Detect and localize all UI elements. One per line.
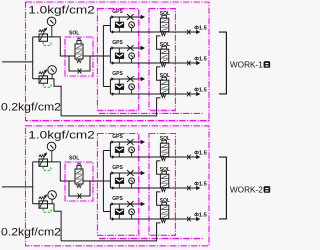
orifice X on output of SV2.3 [187,217,191,222]
shut-off valve X on U1.2 top line [127,45,134,51]
outer dash-dot enclosure box (circuit 1) [26,2,210,121]
wire 0.2kgf bottom bus (circuit 2) [61,240,157,242]
shut-off valve X on U1.1 top line [127,14,134,20]
flow arrow on U1.1 bottom line [112,30,115,33]
label SOL SV2.1 [160,136,170,142]
orifice X on output of SV1.1 [187,30,191,35]
wire GPS U1.1 top line [110,16,141,18]
orifice X on bypass of SV1.0 [78,68,82,73]
wire pressure-switch drop of U1.3 [118,79,120,94]
wire GPS U2.1 top line [110,141,141,143]
label GPS U1.2 [112,40,123,46]
GPS column dash-dot box (circuit 1) [97,9,138,111]
orifice X on output of SV2.2 [187,186,191,191]
svg-text:Φ1.5: Φ1.5 [194,213,207,219]
flow arrow on U1.2 bottom line [112,61,115,64]
pressure gauge G1.3 [129,84,135,90]
wire pilot link from SV1.2 [157,67,162,80]
svg-text:0.2kgf/cm2: 0.2kgf/cm2 [1,227,61,239]
label SOL SV2.3 [160,198,170,204]
wire inlet riser (circuit 1) [32,37,34,79]
svg-text:Φ1.5: Φ1.5 [194,88,207,94]
wire GPS U1.3 top line [110,78,141,80]
pressure switch PS2.1 [115,147,123,152]
pressure gauge PG1.2 [48,66,57,75]
vent arrow of U2.1 [141,140,145,144]
wire bus stub row1 (circuit 2) [103,150,110,152]
WORK-2 group bracket [219,157,227,219]
wire pilot link from SV2.1 [157,161,162,174]
wire GPS supply bus (circuit 2) [102,151,104,212]
output arrow of SV1.1 [197,30,201,34]
WORK-1 group bracket [219,32,227,94]
pressure gauge G1.1 [129,22,135,28]
vent arrow of U1.1 [141,15,145,19]
solenoid valve SV1.3 body [160,80,168,93]
svg-text:GPS: GPS [112,40,123,46]
outer dash-dot enclosure box (circuit 2) [26,126,210,246]
label SOL SV1.3 [160,73,170,79]
main solenoid valve SV1.0 dash-dot box [65,37,93,76]
pressure gauge PG2.1 [47,142,56,151]
pressure gauge G1.2 [129,53,135,59]
wire output line row3 (circuit 1) [110,93,196,95]
pressure regulator REG1.2 [39,69,48,83]
return spring of SV2.2 [161,188,165,191]
shut-off valve X on U2.3 top line [127,201,134,207]
return spring of SV2.0 [77,185,82,188]
wire 1.0kgf branch to SOL valve and GPS bus (circuit 2) [33,162,111,181]
wire GPS U2.1 loop left vertical [109,142,111,157]
array bottom dash-dot line (circuit 1) [99,112,204,114]
wire GPS U2.3 loop left vertical [109,204,111,219]
return spring of SV1.0 [77,60,82,63]
label WORK-2 side glyph [264,186,271,193]
pilot line (green dashed) of REG2.2 [43,209,51,213]
wire GPS U2.2 loop left vertical [109,173,111,188]
output arrow of SV2.2 [197,186,201,190]
pressure switch PS2.3 [115,209,123,214]
label 0.2kgf/cm2 (circuit 1) [1,102,61,114]
SOL valve column dash-dot box (circuit 1) [149,9,175,111]
pilot stub of SV1.0 [78,39,80,41]
wire inlet riser (circuit 2) [32,162,34,204]
wire 0.2kgf branch (circuit 1) [33,79,61,116]
wire pilot link from SV1.1 [157,36,162,49]
solenoid coil of SV1.0 [77,41,81,44]
shut-off valve X on U2.1 top line [127,139,134,145]
wire bus stub row1 (circuit 1) [103,25,110,27]
wire pressure-switch drop of U2.1 [118,142,120,157]
solenoid valve SV1.1 body [160,18,168,31]
vent arrow of U1.2 [141,46,145,50]
pressure switch PS2.2 [115,178,123,183]
shut-off valve X on U2.2 top line [127,170,134,176]
orifice X on output of SV1.3 [187,92,191,97]
pressure regulator REG2.2 [39,194,48,208]
gauge stem of G1.2 [131,58,133,63]
svg-text:GPS: GPS [112,134,123,140]
label SOL SV1.2 [160,42,170,48]
wire bus stub row3 (circuit 2) [103,211,110,213]
label 0.2kgf/cm2 (circuit 2) [1,227,61,239]
flow arrow on U2.2 bottom line [112,186,115,189]
pressure regulator REG2.1 [39,152,48,166]
label GPS U1.3 [112,71,123,77]
label 1.0kgf/cm2 (circuit 1) [28,4,95,16]
flow arrow on U1.2 top line [111,46,114,49]
pilot line (green dashed) of REG1.1 [43,42,51,46]
solenoid valve SV2.2 body [160,174,168,187]
pilot stub of SV2.0 [78,164,80,166]
svg-text:1.0kgf/cm2: 1.0kgf/cm2 [28,4,95,16]
SOL valve column dash-dot box (circuit 2) [149,134,175,236]
flow arrow on U2.3 top line [111,202,114,205]
gauge stem of PG2.1 [51,151,53,162]
pressure switch PS1.2 [115,53,123,58]
return spring of SV2.3 [161,219,165,222]
label WORK-2 [230,185,263,195]
return spring of SV1.2 [161,63,165,66]
pilot line (green dashed) of REG1.2 [43,84,51,88]
pressure gauge PG2.2 [48,191,57,200]
pressure gauge G2.2 [129,178,135,184]
wire output line row3 (circuit 2) [110,218,196,220]
svg-text:Φ1.5: Φ1.5 [194,182,207,188]
solenoid coil of SV1.2 [162,46,167,49]
svg-text:1.0kgf/cm2: 1.0kgf/cm2 [28,129,95,141]
label WORK-1 side glyph [264,61,271,68]
pilot line (green dashed) of REG2.1 [43,167,51,171]
solenoid valve SV2.1 body [160,143,168,156]
solenoid valve SV2.3 body [160,205,168,218]
solenoid coil of SV1.1 [162,15,167,18]
wire bypass loop of SV1.0 [69,56,90,71]
label phi-1.5 output 2.1 [194,151,207,157]
pressure switch PS1.3 [115,84,123,89]
svg-text:0.2kgf/cm2: 0.2kgf/cm2 [1,102,61,114]
label GPS U2.1 [112,134,123,140]
wire pressure-switch drop of U1.1 [118,17,120,32]
solenoid valve SV1.2 body [160,49,168,62]
flow arrow on U2.1 top line [111,140,114,143]
label GPS U2.2 [112,165,123,171]
pressure gauge G2.1 [129,147,135,153]
svg-text:SOL: SOL [69,156,79,162]
gauge stem of G2.2 [131,183,133,188]
wire GPS U1.1 loop left vertical [109,17,111,32]
svg-text:SOL: SOL [160,167,170,173]
gauge stem of G1.3 [131,89,133,94]
label phi-1.5 output 2.2 [194,182,207,188]
flow arrow on U1.1 top line [111,15,114,18]
label phi-1.5 output 1.3 [194,88,207,94]
wire pressure-switch drop of U2.2 [118,173,120,188]
wire output line row2 (circuit 1) [110,62,196,64]
label SOL SV1.1 [160,11,170,17]
gauge stem of G1.1 [131,27,133,32]
wire pilot link from SV1.3 to 0.2kgf bus [157,98,161,116]
gauge stem of G2.3 [131,214,133,219]
output arrow of SV2.3 [197,217,201,221]
GPS column dash-dot box (circuit 2) [97,134,138,236]
gauge stem of G2.1 [131,152,133,157]
svg-text:SOL: SOL [160,73,170,79]
gauge stem of PG1.2 [51,74,53,79]
svg-text:WORK-2: WORK-2 [230,185,263,195]
svg-text:SOL: SOL [160,11,170,17]
label SOL SV2.0 [69,156,79,162]
solenoid coil of SV2.0 [77,166,81,169]
svg-text:GPS: GPS [112,71,123,77]
wire pilot link from SV2.3 to 0.2kgf bus [157,223,161,241]
svg-text:SOL: SOL [160,136,170,142]
wire GPS U2.3 top line [110,203,141,205]
pressure regulator REG1.1 [39,27,48,41]
wire 1.0kgf branch to SOL valve and GPS bus (circuit 1) [33,37,111,56]
wire air inlet (circuit 1) [2,61,33,63]
label GPS U2.3 [112,196,123,202]
gauge stem of PG2.2 [51,199,53,204]
pressure gauge PG1.1 [47,17,56,26]
orifice X on output of SV1.2 [187,61,191,66]
wire GPS supply bus (circuit 1) [102,26,104,87]
pressure gauge G2.3 [129,209,135,215]
label 1.0kgf/cm2 (circuit 2) [28,129,95,141]
shut-off valve X on U1.3 top line [127,76,134,82]
gauge stem of PG1.1 [51,26,53,37]
wire GPS U1.3 loop left vertical [109,79,111,94]
solenoid valve SV2.0 body [75,169,83,184]
output arrow of SV2.1 [197,155,201,159]
svg-text:SOL: SOL [69,31,79,37]
label phi-1.5 output 1.2 [194,57,207,63]
svg-text:GPS: GPS [112,9,123,15]
solenoid valve SV1.0 body [75,44,83,59]
flow arrow on U1.3 bottom line [112,92,115,95]
label SOL SV2.2 [160,167,170,173]
vent arrow of U1.3 [141,77,145,81]
label WORK-1 [230,60,263,70]
wire pilot link from SV2.2 [157,192,162,205]
output arrow of SV1.2 [197,61,201,65]
flow arrow on U2.3 bottom line [112,217,115,220]
wire bypass loop of SV2.0 [69,181,90,196]
solenoid coil of SV2.1 [162,140,167,143]
svg-text:Φ1.5: Φ1.5 [194,26,207,32]
svg-text:GPS: GPS [112,196,123,202]
array bottom dash-dot line (circuit 2) [99,237,204,239]
svg-text:Φ1.5: Φ1.5 [194,151,207,157]
wire 0.2kgf bottom bus (circuit 1) [61,115,157,117]
label phi-1.5 output 1.1 [194,26,207,32]
svg-text:SOL: SOL [160,198,170,204]
solenoid coil of SV2.2 [162,171,167,174]
solenoid coil of SV2.3 [162,202,167,205]
svg-text:Φ1.5: Φ1.5 [194,57,207,63]
wire GPS U2.2 top line [110,172,141,174]
orifice X on output of SV2.1 [187,155,191,160]
wire output line row2 (circuit 2) [110,187,196,189]
wire output line row1 (circuit 1) [110,31,196,33]
wire output line row1 (circuit 2) [110,156,196,158]
flow arrow on U2.1 bottom line [112,155,115,158]
wire GPS U1.2 loop left vertical [109,48,111,63]
wire bus stub row3 (circuit 1) [103,86,110,88]
svg-text:GPS: GPS [112,165,123,171]
wire air inlet (circuit 2) [2,186,33,188]
label GPS U1.1 [112,9,123,15]
wire pressure-switch drop of U2.3 [118,204,120,219]
label SOL SV1.0 [69,31,79,37]
label phi-1.5 output 2.3 [194,213,207,219]
pressure switch PS1.1 [115,22,123,27]
return spring of SV1.3 [161,94,165,97]
wire pressure-switch drop of U1.2 [118,48,120,63]
return spring of SV2.1 [161,157,165,160]
orifice X on bypass of SV2.0 [78,193,82,198]
svg-text:WORK-1: WORK-1 [230,60,263,70]
vent arrow of U2.3 [141,202,145,206]
wire GPS U1.2 top line [110,47,141,49]
flow arrow on U2.2 top line [111,171,114,174]
wire 0.2kgf branch (circuit 2) [33,204,61,241]
vent arrow of U2.2 [141,171,145,175]
flow arrow on U1.3 top line [111,77,114,80]
solenoid coil of SV1.3 [162,77,167,80]
main solenoid valve SV2.0 dash-dot box [65,162,93,201]
svg-text:SOL: SOL [160,42,170,48]
output arrow of SV1.3 [197,92,201,96]
return spring of SV1.1 [161,32,165,35]
